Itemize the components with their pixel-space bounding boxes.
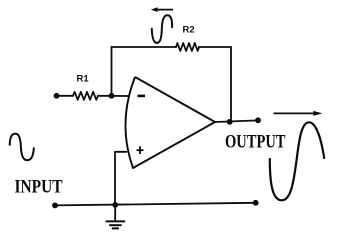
svg-text:R2: R2 xyxy=(183,25,195,36)
svg-text:INPUT: INPUT xyxy=(15,177,63,198)
svg-text:R1: R1 xyxy=(77,73,90,84)
svg-text:OUTPUT: OUTPUT xyxy=(225,131,286,152)
